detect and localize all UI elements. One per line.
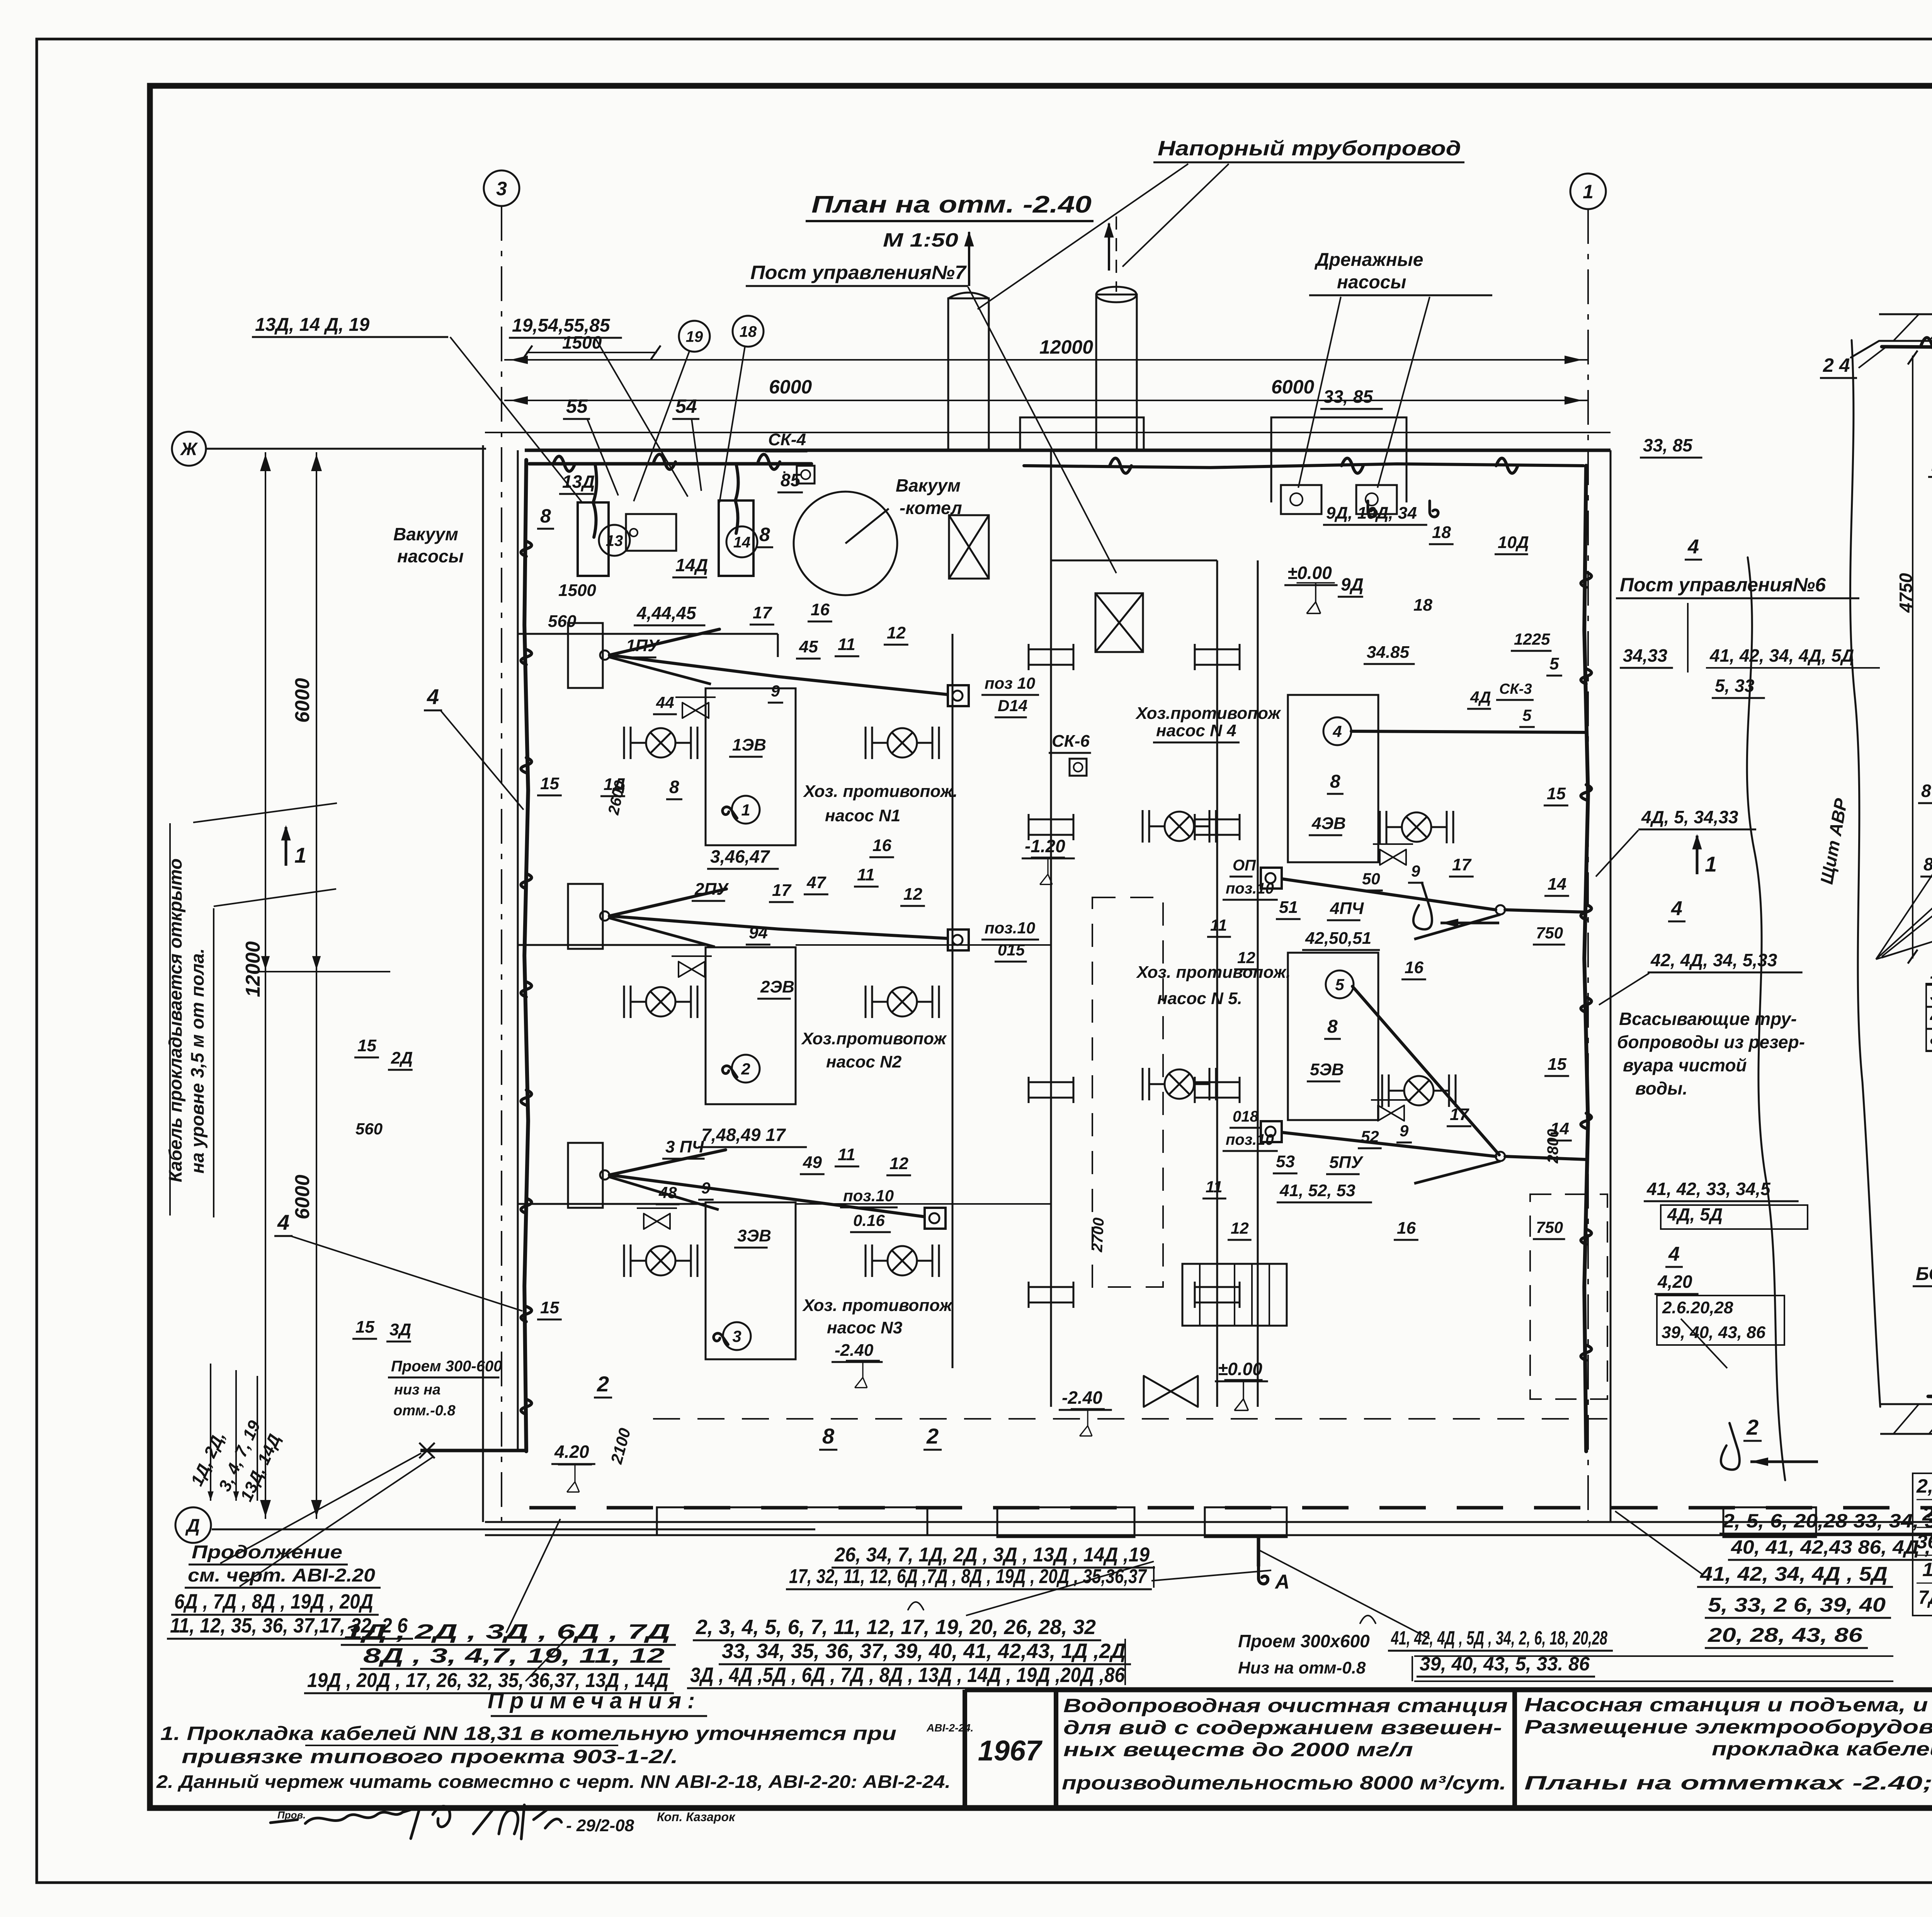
svg-text:17, 32, 11, 12, 6Д ,7Д , 8Д ,: 17, 32, 11, 12, 6Д ,7Д , 8Д , 19Д , 20Д … [789,1565,1147,1588]
svg-text:1967: 1967 [978,1735,1043,1767]
svg-text:34.85: 34.85 [1367,643,1410,662]
svg-text:1: 1 [294,843,306,867]
svg-text:Хоз.противопож: Хоз.противопож [801,1029,947,1048]
valve pump5 left [1143,1068,1216,1100]
fanout box 1PU [568,623,603,688]
svg-text:018: 018 [1233,1108,1259,1125]
svg-text:36,37, 39, 40, 41, 42, 43, 8: 36,37, 39, 40, 41, 42, 43, 86, [1917,1531,1932,1553]
cable corridor exit left [420,1449,526,1452]
svg-text:Ж: Ж [180,439,198,459]
svg-text:6000: 6000 [769,376,812,398]
svg-text:12: 12 [903,885,922,904]
svg-text:Хоз. противопож.: Хоз. противопож. [1136,963,1291,982]
fanout box 2PU [568,884,603,949]
svg-text:11: 11 [857,865,875,884]
svg-text:11: 11 [1210,916,1227,934]
cable drop to box 14 [735,464,738,533]
svg-text:поз.10: поз.10 [1226,880,1274,897]
svg-text:18: 18 [740,323,757,340]
svg-text:насос N3: насос N3 [827,1318,902,1337]
ceiling hatched band [1879,313,1932,315]
svg-text:0.16: 0.16 [853,1211,885,1229]
svg-text:15: 15 [357,1036,376,1055]
sump dashed pit [1092,897,1163,1287]
wavy separator marks [908,1602,923,1610]
svg-text:40, 41, 42,43 86, 4Д , 5Д: 40, 41, 42,43 86, 4Д , 5Д [1731,1536,1932,1558]
svg-text:3: 3 [496,178,507,199]
svg-text:Пров.: Пров. [277,1809,306,1821]
hall gate valve upper [949,515,989,579]
svg-text:20, 26, 28, 32, 33, 34, 35: 20, 26, 28, 32, 33, 34, 35 [1922,1503,1932,1525]
svg-text:20, 28, 43, 86: 20, 28, 43, 86 [1708,1624,1863,1646]
svg-text:94: 94 [749,923,768,942]
svg-text:5ПУ: 5ПУ [1329,1153,1364,1172]
svg-text:47: 47 [806,873,827,892]
svg-text:2800: 2800 [1544,1129,1561,1164]
svg-text:13Д, 14 Д, 19: 13Д, 14 Д, 19 [255,315,369,335]
svg-text:4: 4 [277,1210,289,1234]
svg-text:1: 1 [741,801,750,819]
interior wall x2720 [1050,450,1052,1407]
svg-text:СК-6: СК-6 [1052,732,1090,751]
valve pump1 right [866,727,939,759]
svg-text:БСК: БСК [1916,1264,1932,1284]
svg-text:см. черт. АВI-2.20: см. черт. АВI-2.20 [188,1565,375,1586]
svg-text:3Д , 4Д ,5Д , 6Д , 7Д , 8Д ,: 3Д , 4Д ,5Д , 6Д , 7Д , 8Д , 13Д , 14Д ,… [690,1663,1125,1687]
svg-text:26, 34, 7, 1Д, 2Д , 3Д , 13Д ,: 26, 34, 7, 1Д, 2Д , 3Д , 13Д , 14Д ,19 [834,1544,1150,1566]
svg-text:750: 750 [1536,924,1563,942]
svg-text:16: 16 [811,600,830,619]
svg-text:9: 9 [1400,1122,1409,1140]
svg-text:15: 15 [1548,1055,1566,1074]
svg-text:8: 8 [1327,1016,1338,1037]
svg-text:4: 4 [1671,897,1682,920]
svg-text:8: 8 [759,524,770,545]
valve pump5 right [1382,1074,1456,1107]
pos10 device boxes right [1261,868,1282,889]
svg-text:16: 16 [1405,958,1423,977]
hall pipe run verticals [952,634,954,1368]
top dimension line 12000 [504,359,1588,361]
cable along top wall [529,462,811,466]
section arrow 1 right [1692,834,1702,850]
grid bubbles 19 and 18 [679,321,710,352]
svg-text:насос N 4: насос N 4 [1156,721,1236,740]
valve pump2 left [624,986,697,1018]
svg-text:14: 14 [733,534,751,551]
svg-text:2ЭВ: 2ЭВ [760,977,794,996]
valve pump3 right [866,1245,939,1277]
leader from cable note [193,803,337,822]
svg-text:12000: 12000 [1039,336,1093,358]
EV valve marks [682,703,709,718]
svg-text:18: 18 [1432,523,1451,542]
svg-text:М 1:50: М 1:50 [883,229,958,251]
svg-text:Вакуум: Вакуум [896,475,961,495]
bottom cable run right plan [1928,1396,1932,1398]
svg-text:Хоз.противопож: Хоз.противопож [1135,704,1281,723]
leader to corridor [1615,1511,1703,1575]
CK-4 device [797,466,815,484]
svg-text:1, 8, 10, 14, 17, 19, 20, 26,: 1, 8, 10, 14, 17, 19, 20, 26, 28 [1930,961,1932,983]
pump bubbles with hooks [721,805,737,823]
svg-text:Всасывающие тру-: Всасывающие тру- [1619,1009,1797,1029]
svg-text:План на отм. -2.40: План на отм. -2.40 [811,191,1092,218]
grid bubble 3 with axis [484,170,519,206]
svg-text:1ПУ: 1ПУ [626,636,660,655]
cable fan from 1PU [600,650,609,660]
break line between plans [1747,557,1785,1480]
svg-text:33, 85: 33, 85 [1323,386,1373,407]
svg-text:44: 44 [656,693,674,712]
svg-text:3ЭВ: 3ЭВ [737,1226,771,1245]
left plan outer walls [482,445,484,1522]
svg-text:9: 9 [771,682,780,700]
svg-text:2. Данный чертеж читать совм: 2. Данный чертеж читать совместно с черт… [156,1771,951,1792]
svg-text:Водопроводная очистная станция: Водопроводная очистная станция [1063,1695,1508,1716]
svg-text:бопроводы из резер-: бопроводы из резер- [1617,1032,1805,1052]
svg-text:5, 33, 2 6, 39, 40: 5, 33, 2 6, 39, 40 [1708,1594,1886,1616]
drainage pump boxes [1281,485,1321,514]
svg-text:Продолжение: Продолжение [192,1542,342,1563]
svg-text:А: А [1274,1571,1290,1593]
leaders napor [978,164,1188,309]
cable top right route [1024,464,1583,468]
svg-text:2: 2 [741,1060,750,1078]
svg-text:14Д: 14Д [675,555,708,575]
wall below vacuum room [518,633,778,635]
stairs block [1182,1264,1287,1326]
svg-text:41, 42, 34, 4Д, 5Д: 41, 42, 34, 4Д, 5Д [1709,645,1854,666]
svg-text:2: 2 [926,1424,939,1448]
svg-text:12000: 12000 [242,941,264,997]
svg-text:Планы на отметках -2.40; ±0: Планы на отметках -2.40; ±0.00. [1524,1772,1932,1794]
svg-text:4: 4 [1668,1243,1680,1265]
svg-text:Низ на отм-0.8: Низ на отм-0.8 [1238,1658,1366,1677]
svg-text:13Д: 13Д [562,472,595,492]
svg-text:9: 9 [1411,862,1420,880]
svg-text:2700: 2700 [1088,1217,1107,1253]
svg-text:прокладка кабелей.: прокладка кабелей. [1712,1738,1932,1760]
svg-text:поз.10: поз.10 [843,1187,894,1205]
svg-text:на уровне 3,5 м от пола.: на уровне 3,5 м от пола. [187,948,207,1174]
pos10 device boxes left [948,685,969,706]
hall wall tee clusters [1029,649,1073,650]
svg-text:4Д, 5Д: 4Д, 5Д [1667,1204,1723,1224]
svg-text:9Д: 9Д [1341,574,1364,594]
svg-text:10Д: 10Д [1498,533,1529,552]
svg-text:12: 12 [889,1154,908,1173]
svg-text:8: 8 [822,1424,835,1448]
svg-text:13: 13 [606,532,623,549]
svg-text:17: 17 [753,603,772,622]
svg-text:Дренажные: Дренажные [1314,250,1423,270]
svg-text:8Д , 12Д , 13Д , 14Д , 20: 8Д , 12Д , 13Д , 14Д , 20Д [1930,1027,1932,1049]
svg-text:19Д , 20Д , 17, 26, 32, 35, 3: 19Д , 20Д , 17, 26, 32, 35, 36,37, 13Д ,… [307,1669,668,1692]
svg-text:Вакуум: Вакуум [393,524,458,544]
svg-text:41, 42, 33, 34,5: 41, 42, 33, 34,5 [1646,1179,1771,1199]
svg-text:отм.-0.8: отм.-0.8 [393,1403,456,1419]
svg-text:86: 86 [1923,854,1932,874]
left broken edge of right plan [1850,340,1880,1407]
svg-text:11, 12, 35, 36, 37,17, 32. 2 6: 11, 12, 35, 36, 37,17, 32. 2 6 [170,1614,408,1637]
top-right small rooms [1270,450,1272,502]
svg-text:8: 8 [540,505,551,527]
svg-text:9: 9 [701,1179,711,1197]
dashed room right bottom of left plan [1530,1194,1607,1399]
svg-text:11: 11 [1206,1178,1223,1196]
svg-text:4: 4 [1332,722,1342,741]
svg-text:6Д , 7Д , 8Д , 19Д , 20Д: 6Д , 7Д , 8Д , 19Д , 20Д [174,1590,373,1613]
svg-text:2, 5, 6, 20,28 33, 34, 39,: 2, 5, 6, 20,28 33, 34, 39, [1722,1510,1932,1532]
svg-text:поз.10: поз.10 [985,919,1035,937]
svg-text:8Д , 3, 4,7, 19, 11, 12: 8Д , 3, 4,7, 19, 11, 12 [363,1644,665,1667]
top dimension line 6000 6000 [504,400,1588,401]
svg-text:1Д ,2 Д ,3 Д , 4Д , 5Д , 6: 1Д ,2 Д ,3 Д , 4Д , 5Д , 6Д [1922,1559,1932,1580]
svg-text:41, 42, 34, 4Д , 5Д: 41, 42, 34, 4Д , 5Д [1700,1563,1888,1585]
svg-text:15: 15 [1547,784,1566,803]
vacuum boiler [794,492,897,595]
bottom corridor lines [485,1521,1932,1523]
svg-text:-2.40: -2.40 [835,1341,874,1360]
svg-text:2 4: 2 4 [1823,354,1850,376]
vacuum pump boxes 13 14 [578,502,609,576]
svg-text:5, 33: 5, 33 [1715,676,1755,696]
svg-text:привязке типового проекта 9: привязке типового проекта 903-1-2/. [182,1746,678,1767]
svg-text:±0.00: ±0.00 [1287,563,1332,583]
svg-text:42, 4Д, 34, 5,33: 42, 4Д, 34, 5,33 [1650,950,1777,970]
title block [965,1687,1932,1692]
handwritten signature [270,1806,450,1839]
svg-text:- 29/2-08: - 29/2-08 [566,1816,634,1835]
svg-text:±0.00: ±0.00 [1218,1359,1262,1379]
svg-text:49: 49 [803,1153,822,1172]
svg-text:низ на: низ на [394,1382,440,1398]
svg-text:85: 85 [781,470,801,490]
svg-text:4: 4 [1687,536,1699,558]
pump bay dividing walls [518,944,706,946]
svg-text:015: 015 [998,941,1025,959]
svg-text:52: 52 [1361,1127,1379,1146]
svg-text:поз.10: поз.10 [1226,1131,1274,1148]
svg-text:15: 15 [540,1298,559,1317]
svg-text:для вид с содержанием взвешен-: для вид с содержанием взвешен- [1063,1717,1502,1738]
grid bubble 1 with axis [1570,174,1606,209]
cable fan from 3PCH [600,1170,609,1180]
85 device [783,471,785,473]
valve pump4 left [1143,810,1216,843]
svg-text:8: 8 [669,777,679,797]
svg-text:1225: 1225 [1514,630,1550,648]
svg-text:Пост управления№6: Пост управления№6 [1620,574,1826,596]
svg-text:560: 560 [548,612,577,631]
svg-text:48: 48 [658,1183,677,1202]
svg-text:41, 42, 4Д , 5Д , 34, 2, 6, 18: 41, 42, 4Д , 5Д , 34, 2, 6, 18, 20,28 [1391,1627,1607,1649]
svg-text:-2.40: -2.40 [1062,1388,1102,1408]
svg-text:7,48,49 17: 7,48,49 17 [701,1125,786,1145]
svg-text:Напорный трубопровод: Напорный трубопровод [1158,137,1461,160]
svg-text:1500: 1500 [558,581,596,600]
svg-text:1ЭВ: 1ЭВ [732,735,766,754]
svg-text:9Д, 10Д, 34: 9Д, 10Д, 34 [1326,504,1417,523]
left plan pump foundations [706,688,796,845]
svg-text:2Д: 2Д [391,1049,413,1067]
fan point 4PCH [1496,905,1505,914]
svg-text:19,54,55,85: 19,54,55,85 [512,315,611,336]
leaders from bottom lists [220,1453,421,1563]
svg-text:1: 1 [1705,852,1717,876]
svg-text:4.20: 4.20 [554,1442,589,1462]
svg-text:12: 12 [1231,1219,1249,1237]
left vertical dimension lines [265,452,266,1519]
svg-text:4Д, 5, 34,33: 4Д, 5, 34,33 [1641,807,1738,827]
svg-text:насос N 5.: насос N 5. [1157,989,1242,1008]
cable under ceiling [1882,343,1932,348]
svg-text:39, 40, 43, 86: 39, 40, 43, 86 [1662,1323,1766,1342]
cable fan from 2PU [600,911,609,921]
svg-text:Кабель прокладывается открыто: Кабель прокладывается открыто [165,858,185,1182]
svg-text:1. Прокладка кабелей NN 18,3: 1. Прокладка кабелей NN 18,31 в котельну… [160,1723,896,1744]
svg-text:12: 12 [1237,948,1255,967]
svg-text:4ПЧ: 4ПЧ [1330,899,1364,918]
svg-text:19: 19 [686,328,703,345]
svg-text:2, 3, 4, 5, 6, 7, 11, 12, 17,: 2, 3, 4, 5, 6, 7, 11, 12, 17, 19, 20, 26… [696,1616,1096,1639]
cable pump4 to trunk [1351,731,1586,732]
svg-text:насосы: насосы [1337,272,1406,293]
svg-text:6000: 6000 [1271,376,1314,398]
svg-text:33, 34, 35, 36, 37, 39, 40, 4: 33, 34, 35, 36, 37, 39, 40, 41, 42,43, 1… [722,1639,1126,1663]
svg-text:2ПУ: 2ПУ [694,880,729,899]
svg-text:17: 17 [1452,855,1472,874]
svg-text:вуара чистой: вуара чистой [1623,1055,1747,1075]
svg-text:11: 11 [838,635,855,654]
svg-text:СК-4: СК-4 [768,430,806,449]
svg-text:-1.20: -1.20 [1025,836,1065,856]
grid bubble Ж [172,432,206,466]
dimension 1500 top [526,352,657,353]
svg-text:32, 33, 34, 35, 36, 37, 39, 4: 32, 33, 34, 35, 36, 37, 39, 40 [1930,983,1932,1005]
grid bubble Д [175,1507,211,1543]
svg-text:55: 55 [566,395,588,417]
level flags [1297,583,1335,613]
svg-text:Хоз. противопож: Хоз. противопож [802,1296,953,1315]
svg-text:1: 1 [1583,181,1594,203]
bowtie valve on corridor [1144,1376,1198,1407]
svg-text:51: 51 [1279,898,1298,917]
svg-text:5: 5 [1522,706,1532,724]
svg-text:3Д: 3Д [389,1320,411,1339]
protruding rooms above top wall [1020,417,1144,450]
svg-text:15: 15 [355,1318,374,1336]
svg-text:3: 3 [732,1327,741,1345]
valve pump2 right [866,986,939,1018]
svg-text:7Д , 8Д , 13Д , 14Д , 19Д: 7Д , 8Д , 13Д , 14Д , 19Д ,20Д [1918,1587,1932,1608]
svg-text:3,46,47: 3,46,47 [710,846,770,867]
svg-text:4ЭВ: 4ЭВ [1311,814,1346,833]
svg-text:750: 750 [1536,1218,1563,1236]
svg-text:16: 16 [872,836,891,855]
arrow into plan bottom [1721,1423,1740,1470]
svg-text:АВI-2-24.: АВI-2-24. [926,1722,973,1734]
svg-text:54: 54 [675,395,697,417]
svg-text:Коп. Казарок: Коп. Казарок [657,1810,736,1824]
fanout box 3PCH [568,1143,603,1208]
svg-text:4,44,45: 4,44,45 [636,603,697,623]
svg-text:насос N1: насос N1 [825,806,900,825]
svg-text:34,33: 34,33 [1623,645,1668,666]
svg-text:2: 2 [1746,1415,1759,1439]
svg-text:6000: 6000 [291,678,314,723]
svg-text:воды.: воды. [1635,1078,1687,1098]
svg-text:5: 5 [1549,654,1559,673]
svg-text:Д: Д [185,1515,200,1536]
leaders 86 [1882,872,1932,957]
svg-text:Проем 300-600: Проем 300-600 [391,1358,502,1375]
svg-text:15: 15 [540,774,559,793]
svg-text:45: 45 [799,637,818,656]
svg-text:41, 52, 53: 41, 52, 53 [1279,1181,1355,1200]
boxed list bottom right plan [1913,1473,1932,1616]
svg-text:8: 8 [1330,771,1340,792]
svg-text:СК-3: СК-3 [1499,681,1532,697]
svg-text:53: 53 [1276,1152,1295,1171]
svg-text:5: 5 [1335,976,1344,994]
svg-text:3 ПЧ: 3 ПЧ [665,1137,704,1156]
bottom hatched band right plan [1880,1403,1932,1405]
interior wall x3150 [1216,560,1218,1407]
svg-text:50: 50 [1362,870,1380,888]
corridor thick dashed cable [529,1506,1932,1510]
svg-text:производительностью 8000 м³/су: производительностью 8000 м³/сут. [1062,1772,1506,1794]
svg-text:2: 2 [597,1372,609,1396]
svg-text:4: 4 [427,684,439,709]
svg-text:Примечания:: Примечания: [488,1688,701,1713]
svg-text:поз 10: поз 10 [985,674,1035,692]
svg-text:D14: D14 [998,696,1027,715]
svg-text:17: 17 [772,881,792,900]
svg-text:насос N2: насос N2 [826,1052,902,1071]
svg-text:17: 17 [1450,1105,1469,1124]
svg-text:42,50,51: 42,50,51 [1305,929,1371,948]
svg-text:12: 12 [887,623,906,642]
svg-text:2, 3, 4,5, 6,7, 11, 12, 17,: 2, 3, 4,5, 6,7, 11, 12, 17, 18, [1916,1475,1932,1497]
hall gate valve lower [1095,593,1143,652]
cable right trunk of left plan [1584,466,1588,1451]
svg-text:4Д: 4Д [1470,688,1491,706]
svg-text:87. 22: 87. 22 [1921,781,1932,801]
svg-text:6000: 6000 [291,1175,314,1219]
svg-text:18: 18 [1413,596,1432,615]
svg-text:2.6.20,28: 2.6.20,28 [1662,1298,1733,1317]
fan leaders Щит АВР [1876,788,1932,959]
svg-text:-котел: -котел [900,498,962,518]
valve pump3 left [624,1245,697,1277]
valve pump4 right [1380,811,1453,843]
cable pump5 diagonal to fan [1352,986,1499,1155]
svg-text:14: 14 [1548,875,1566,894]
upper corridor line [485,432,1611,433]
svg-text:ных веществ до 2000 мг/л: ных веществ до 2000 мг/л [1063,1739,1413,1760]
svg-text:Размещение электрооборудования: Размещение электрооборудования и [1524,1716,1932,1738]
svg-text:41, 42, 43, 83, 87, 4Д , 5Д ,: 41, 42, 43, 83, 87, 4Д , 5Д , 7Д [1930,1005,1932,1027]
svg-text:Проем 300х600: Проем 300х600 [1238,1631,1370,1651]
svg-text:33, 85: 33, 85 [1643,435,1693,455]
svg-text:4,20: 4,20 [1657,1272,1692,1292]
valve pump1 left [624,727,697,759]
drainage cable hooks [1368,501,1376,517]
section arrow 1 left [281,825,291,841]
cable left wall vertical [524,460,528,1451]
